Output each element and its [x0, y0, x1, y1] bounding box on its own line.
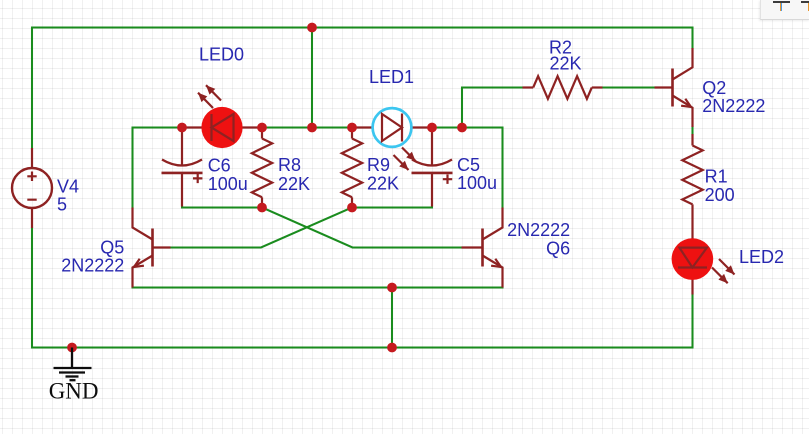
svg-text:Q6: Q6 — [546, 239, 570, 259]
svg-text:100u: 100u — [208, 174, 248, 194]
svg-text:R8: R8 — [278, 155, 301, 175]
svg-text:22K: 22K — [550, 53, 582, 73]
svg-text:R1: R1 — [705, 166, 728, 186]
svg-text:V4: V4 — [57, 177, 79, 197]
svg-text:C6: C6 — [208, 155, 231, 175]
svg-text:200: 200 — [705, 185, 735, 205]
svg-text:2N2222: 2N2222 — [61, 255, 124, 275]
svg-text:C5: C5 — [457, 155, 480, 175]
svg-text:R9: R9 — [367, 155, 390, 175]
svg-text:22K: 22K — [278, 174, 310, 194]
svg-text:LED2: LED2 — [739, 247, 784, 267]
svg-text:LED0: LED0 — [199, 45, 244, 65]
svg-text:100u: 100u — [457, 173, 497, 193]
svg-text:LED1: LED1 — [369, 67, 414, 87]
svg-text:5: 5 — [57, 195, 67, 215]
svg-text:2N2222: 2N2222 — [702, 96, 765, 116]
svg-text:22K: 22K — [367, 174, 399, 194]
svg-text:GND: GND — [49, 378, 99, 403]
svg-text:2N2222: 2N2222 — [507, 220, 570, 240]
